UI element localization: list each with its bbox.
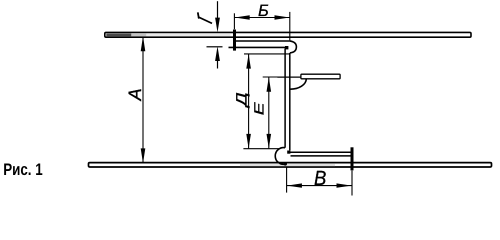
bottom elbow end blob [284, 162, 287, 165]
dimension E: bottom arrowhead [267, 134, 272, 149]
dimension G: upper line with down arrowhead [217, 1, 219, 19]
svg-text:В: В [314, 167, 326, 190]
svg-text:Б: Б [258, 2, 269, 20]
dimension V bottom: right arrowhead [337, 183, 352, 187]
dimension V bottom: left arrowhead [287, 183, 302, 187]
label G strokes [198, 12, 199, 18]
dimension V bottom: line [287, 185, 352, 187]
svg-text:Е: Е [251, 101, 266, 115]
top elbow inner corner dot [285, 46, 288, 49]
svg-text:Д: Д [233, 92, 250, 109]
valve stub line [277, 76, 301, 78]
dimension B top: left arrowhead [235, 15, 250, 19]
dimension B top: right extension [289, 12, 291, 41]
dimension D: top extension line [244, 53, 290, 55]
dimension G: lower line with up arrowhead [217, 60, 219, 69]
flange tick 2 [351, 147, 354, 170]
dimension D: line [248, 54, 250, 148]
top elbow outer wall [289, 41, 296, 53]
dimension A bottom arrowhead [141, 148, 146, 163]
riser right wall [289, 53, 291, 150]
dimension B top: right arrowhead [275, 15, 290, 19]
dimension E: top extension line [263, 76, 281, 78]
riser left wall [284, 49, 286, 148]
branch pipe top wall [233, 40, 289, 42]
svg-text:Рис. 1: Рис. 1 [3, 160, 43, 179]
dimension A top arrowhead [141, 36, 146, 51]
valve underside arc [290, 79, 306, 89]
dimension A line [142, 37, 144, 162]
dimension D: bottom arrowhead [246, 134, 251, 149]
svg-text:А: А [125, 88, 145, 101]
top main pipe [105, 32, 471, 37]
dimension B top: line [235, 17, 290, 19]
bottom elbow inner corner dot [287, 151, 290, 154]
valve outlet rectangle [301, 74, 340, 79]
dimension V bottom: left extension [286, 167, 288, 193]
dimension B top: left extension [233, 13, 235, 29]
bottom main pipe [89, 163, 492, 167]
dimension E: top arrowhead [267, 77, 272, 92]
dimension D: top arrowhead [246, 54, 251, 69]
dimension G: lower extension bar [207, 46, 223, 48]
dimension E: line [268, 77, 270, 148]
dimension V bottom: right extension [351, 171, 353, 196]
branch pipe bottom wall [229, 46, 287, 48]
flange tick 1 [233, 30, 236, 51]
dimension D/E: bottom extension line [243, 148, 279, 150]
bottom elbow outer arc [275, 148, 285, 165]
outlet pipe bottom wall [291, 155, 352, 157]
outlet pipe top wall [289, 151, 352, 153]
